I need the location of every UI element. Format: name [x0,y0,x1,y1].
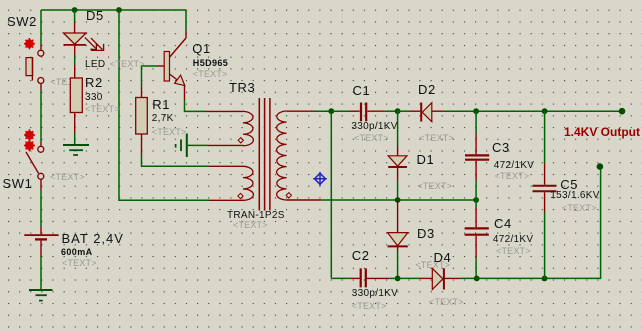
label D5 value [85,60,105,70]
capacitor C2 [331,268,397,287]
wire upper winding bottom to ground [208,144,244,146]
label D3 TEXT [415,261,450,270]
label C5 [560,178,578,191]
label D5 TEXT [110,60,145,69]
wire Q1 collector [185,10,187,30]
transistor Q1 [164,38,186,86]
wire bottom rail right [477,167,601,279]
diode D2 [398,103,443,122]
capacitor C4 [465,200,489,278]
label TR3 TEXT [233,221,268,230]
capacitor C5 [533,111,557,278]
secondary winding [277,111,287,200]
label D5 [86,9,104,22]
label Q1 [192,42,211,55]
node C3 top junction [473,108,479,114]
label R1 TEXT [152,128,187,137]
wire top rail right [443,110,622,112]
label C1 value [351,122,397,132]
label R2 TEXT [85,105,120,114]
wire R1 bottom to lower winding top [141,134,143,154]
label SW1 [3,177,33,190]
label R2 value [85,93,103,103]
label C5 value [550,191,599,201]
wire R2 to ground [74,113,76,134]
label C4 [494,217,512,230]
diode D4 [398,268,477,289]
label C5 TEXT [562,204,597,213]
label C3 [492,141,510,154]
label C1 [353,84,371,97]
label D1 [417,153,435,166]
label C2 value [352,289,398,299]
primary upper winding [243,111,253,145]
label R1 [152,98,170,111]
wire Q1 emitter to upper winding [184,86,186,100]
label TR3 [229,81,255,94]
label Q1 value [193,59,228,68]
wire SW1 to battery [40,180,42,191]
capacitor C3 [465,111,489,200]
core [259,98,270,211]
node junction D5 top [72,7,78,13]
label SW1 TEXT [50,173,85,182]
wire secondary top pin [287,110,314,112]
label 1.4KV Output [564,126,640,138]
primary lower winding [243,166,253,200]
label BAT TEXT [62,259,97,268]
node junction x119 [116,7,122,13]
label C2 TEXT [352,302,387,311]
label C3 value [494,161,534,171]
node bottom rail D4 junction [395,276,401,282]
transformer TR3 [238,98,292,211]
label D4 [434,251,452,264]
label D2 [418,83,436,96]
switch SW2 [24,38,44,84]
wire to LED [74,10,76,22]
battery BAT 2,4V [24,235,58,256]
node C1 left junction [328,108,334,114]
wire top rail [41,9,186,11]
label C4 TEXT [496,247,531,256]
polarity dot upper [238,138,243,143]
wire Q1 base [142,65,158,67]
label SW2 [7,15,37,28]
switch SW1 [24,129,44,179]
label C1 TEXT [354,134,389,143]
node output wire end [619,108,626,115]
wire R1 top [141,66,143,87]
ground (rotated, transformer) [176,134,187,158]
node middle rail D3 junction [395,197,401,203]
node D1 top junction [395,108,401,114]
node middle rail C4 junction [473,197,479,203]
origin marker (blue) [313,172,327,186]
label SW2 TEXT [50,78,70,87]
node C5 top junction [542,108,548,114]
wire secondary bottom pin / middle rail [287,199,321,201]
diode D1 [388,111,407,200]
ground (battery) [29,290,53,301]
label D4 TEXT [429,298,464,307]
label BAT [62,232,124,245]
label R2 [85,76,103,89]
wire x331 vertical [330,111,332,278]
wire left column battery branch [40,10,42,45]
resistor R1 [136,98,148,135]
node output return wire end [597,163,604,170]
node bottom rail C4 junction [474,276,480,282]
wire LED to R2 [74,46,76,55]
node bottom rail C5 junction [542,276,548,282]
wire battery to ground [40,257,42,290]
label R1 value [152,114,174,124]
label BAT value [61,248,93,257]
LED D5 [64,33,104,50]
ground (R2) [63,145,89,155]
label C3 TEXT [495,172,530,181]
diode D3 [388,200,408,278]
wire SW2 to SW1 [40,84,42,90]
polarity dot lower [238,193,243,198]
polarity dot secondary [286,193,291,198]
wire x119 vertical to lower winding bottom [119,10,209,200]
label C4 value [493,235,533,245]
label TR3 value [227,211,285,221]
capacitor C1 [331,103,397,122]
label D1 TEXT [417,182,452,191]
label D2 TEXT [419,134,454,143]
label D3 [417,227,435,240]
label C2 [352,249,370,262]
resistor R2 [70,78,82,113]
label Q1 TEXT [193,70,228,79]
